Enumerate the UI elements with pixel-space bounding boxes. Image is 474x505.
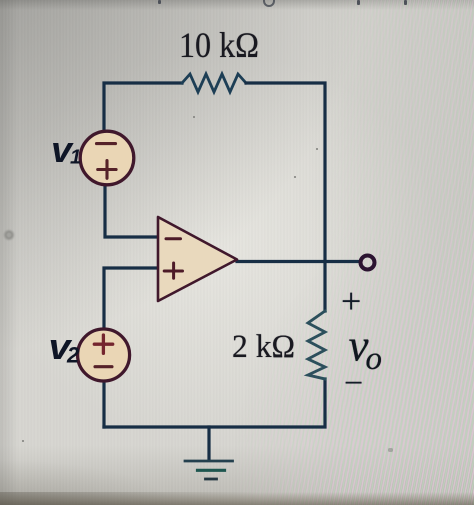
svg-text:2 kΩ: 2 kΩ [232, 329, 295, 365]
svg-text:−: − [344, 365, 363, 402]
svg-text:1: 1 [70, 146, 81, 168]
svg-text:o: o [366, 341, 383, 377]
svg-text:2: 2 [66, 342, 80, 367]
svg-text:+: + [341, 281, 361, 321]
svg-text:10 kΩ: 10 kΩ [179, 25, 259, 65]
